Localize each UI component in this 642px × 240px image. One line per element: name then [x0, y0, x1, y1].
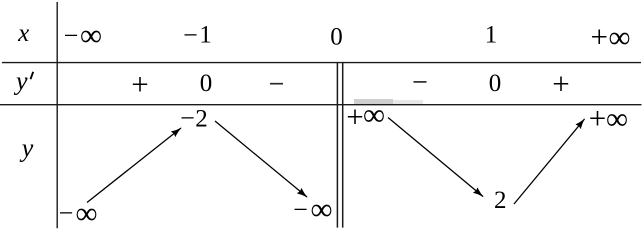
svg-text:1: 1: [199, 22, 212, 49]
svg-text:+: +: [131, 67, 148, 102]
gray artifact smudge: [354, 99, 393, 104]
svg-text:+: +: [591, 19, 608, 54]
svg-text:+: +: [552, 66, 569, 101]
horizontal rule below x row: [2, 62, 641, 64]
svg-text:2: 2: [494, 187, 507, 214]
double bar at x=0 (left): [336, 63, 338, 228]
svg-text:+: +: [589, 101, 606, 136]
prime of y': [31, 72, 34, 79]
variation arrow falling from +inf to 2: [388, 118, 483, 197]
svg-text:∞: ∞: [608, 20, 630, 55]
svg-text:1: 1: [485, 22, 498, 49]
svg-text:0: 0: [200, 70, 213, 97]
variation arrow rising from 2 to +inf: [514, 119, 585, 204]
svg-text:∞: ∞: [80, 18, 102, 53]
svg-text:0: 0: [489, 70, 502, 97]
svg-text:+: +: [346, 99, 363, 134]
variation arrow falling from -2 to -inf: [215, 121, 307, 197]
variation arrow rising from -inf to -2: [87, 128, 181, 203]
svg-text:0: 0: [330, 23, 343, 50]
svg-text:∞: ∞: [363, 97, 385, 132]
svg-text:x: x: [17, 20, 29, 47]
svg-text:y: y: [13, 67, 28, 96]
svg-text:−: −: [59, 198, 74, 227]
table header column vertical line: [56, 2, 58, 228]
svg-text:∞: ∞: [606, 101, 628, 136]
svg-text:−: −: [180, 104, 195, 133]
svg-text:−: −: [183, 21, 198, 50]
horizontal rule below y' row: [0, 104, 642, 106]
svg-text:−: −: [64, 21, 79, 50]
svg-text:2: 2: [195, 106, 208, 133]
svg-text:−: −: [293, 195, 308, 224]
svg-text:∞: ∞: [75, 196, 97, 231]
double bar at x=0 (right): [342, 63, 344, 228]
y' sign - (left of 0): [270, 83, 283, 85]
svg-text:y: y: [19, 133, 34, 162]
y' sign - (right of 0): [414, 81, 427, 83]
svg-text:∞: ∞: [310, 192, 332, 227]
